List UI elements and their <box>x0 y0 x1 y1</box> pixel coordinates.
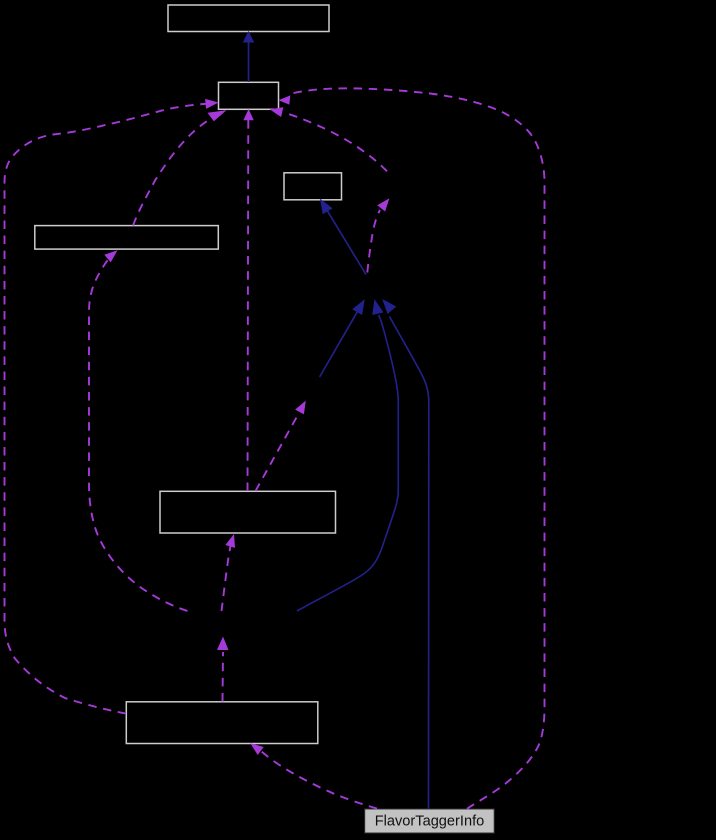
edge nodeD->box5 (dashed usage, short vertical) <box>222 546 231 611</box>
edge FlavorTaggerInfo->box6 (dashed usage, curve) <box>258 749 377 809</box>
node box4 (left wide class) <box>35 226 219 250</box>
edge FlavorTaggerInfo->nodeA (solid inheritance, long curve) <box>383 300 429 809</box>
edge box5->nodeC (dashed usage, diagonal) <box>256 412 300 491</box>
arrowhead box5->nodeC <box>295 401 306 415</box>
arrowhead FlavorTaggerInfo->box2 <box>279 95 291 104</box>
edge nodeD->box4 (dashed usage, left tall route) <box>89 257 188 612</box>
arrowhead FlavorTaggerInfo->box6 <box>250 743 263 755</box>
svg-text:FlavorTaggerInfo: FlavorTaggerInfo <box>375 814 485 830</box>
arrowhead nodeD->box4 <box>104 250 117 262</box>
edge box6->box2 (dashed usage, left route) <box>5 104 210 714</box>
arrowhead nodeB->box2 <box>270 107 284 117</box>
edge box6->nodeD (dashed usage, short vertical) <box>222 652 225 702</box>
edge box4->box2 (dashed usage, diagonal) <box>133 119 211 226</box>
node FlavorTaggerInfo (current class, gray filled) <box>365 809 495 833</box>
arrowhead nodeD->box5 <box>225 534 235 548</box>
node box2 (hub class) <box>219 82 279 109</box>
arrowhead box6->box2 <box>205 99 218 109</box>
edge box2->box1 (solid inheritance, vertical) <box>244 32 254 82</box>
edge FlavorTaggerInfo->box2 (dashed usage, right route) <box>292 88 545 809</box>
edge nodeA->nodeB (dashed usage, small curve) <box>367 210 380 273</box>
edge nodeA->box3 (solid inheritance, diagonal) <box>321 200 366 275</box>
node box1 (top class) <box>168 5 329 32</box>
node box3 (small class) <box>284 173 342 200</box>
arrowhead box6->nodeD <box>217 637 229 651</box>
arrowhead box5->box2 <box>243 109 253 120</box>
arrowhead nodeA->nodeB <box>377 198 389 211</box>
arrowhead box4->box2 <box>208 110 227 121</box>
edge nodeC->nodeA (solid inheritance, diagonal) <box>320 301 364 378</box>
edge nodeB->box2 (dashed usage from invisible node B) <box>284 113 387 172</box>
node box5 (middle two-line class) <box>160 491 336 533</box>
node box6 (bottom two-line class) <box>126 702 317 744</box>
edge box5->box2 (dashed usage, long vertical) <box>247 120 250 491</box>
edge nodeD->nodeA (solid inheritance, curved) <box>297 301 398 612</box>
